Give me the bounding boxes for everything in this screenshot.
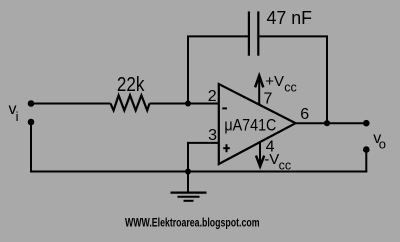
wire: input to resistor [31, 103, 111, 105]
label -Vcc [264, 151, 291, 172]
svg-text:47 nF: 47 nF [267, 8, 313, 28]
node Vo top terminal [363, 120, 370, 127]
svg-text:cc: cc [284, 81, 297, 95]
ground [171, 172, 207, 201]
capacitor C 47nF [249, 11, 258, 55]
-Vcc arrow (pin 4) [256, 141, 264, 166]
op-amp plus sign [223, 144, 230, 152]
svg-text:-V: -V [264, 151, 279, 168]
wire: op-amp output [296, 122, 367, 124]
node ground junction [185, 169, 191, 175]
wire: Vo bottom terminal down to rail [365, 150, 367, 172]
node Vi top terminal [28, 100, 35, 107]
wire: bottom ground rail [30, 171, 367, 173]
resistor R 22k [111, 95, 150, 110]
svg-text:WWW.Elektroarea.blogspot.com: WWW.Elektroarea.blogspot.com [125, 216, 260, 230]
wire: feedback up from node A [188, 36, 248, 103]
wire: Vi bottom terminal down to rail [30, 122, 32, 172]
svg-text:cc: cc [279, 158, 292, 172]
wire: capacitor to output node [259, 36, 327, 123]
svg-text:i: i [16, 109, 19, 124]
svg-text:μA741C: μA741C [224, 116, 276, 135]
node B output/feedback junction [324, 120, 330, 126]
wire: resistor to op-amp pin 2 [150, 103, 219, 105]
svg-text:2: 2 [208, 88, 217, 105]
label v_o [373, 130, 386, 152]
op-amp U1 triangle [219, 84, 296, 164]
node Vi bottom terminal [28, 119, 35, 126]
svg-text:o: o [379, 137, 386, 152]
svg-text:3: 3 [208, 127, 217, 144]
svg-text:22k: 22k [117, 74, 145, 96]
node A junction (inverting input / feedback) [185, 101, 191, 107]
label v_i [9, 101, 19, 124]
op-amp minus sign [222, 107, 227, 109]
svg-text:7: 7 [264, 91, 273, 108]
+Vcc arrow (pin 7) [255, 76, 263, 105]
wire: pin 3 to ground rail [188, 143, 219, 172]
label +Vcc [265, 73, 296, 95]
svg-text:+V: +V [265, 73, 284, 90]
node Vo bottom terminal [363, 146, 370, 153]
svg-text:6: 6 [300, 106, 309, 123]
